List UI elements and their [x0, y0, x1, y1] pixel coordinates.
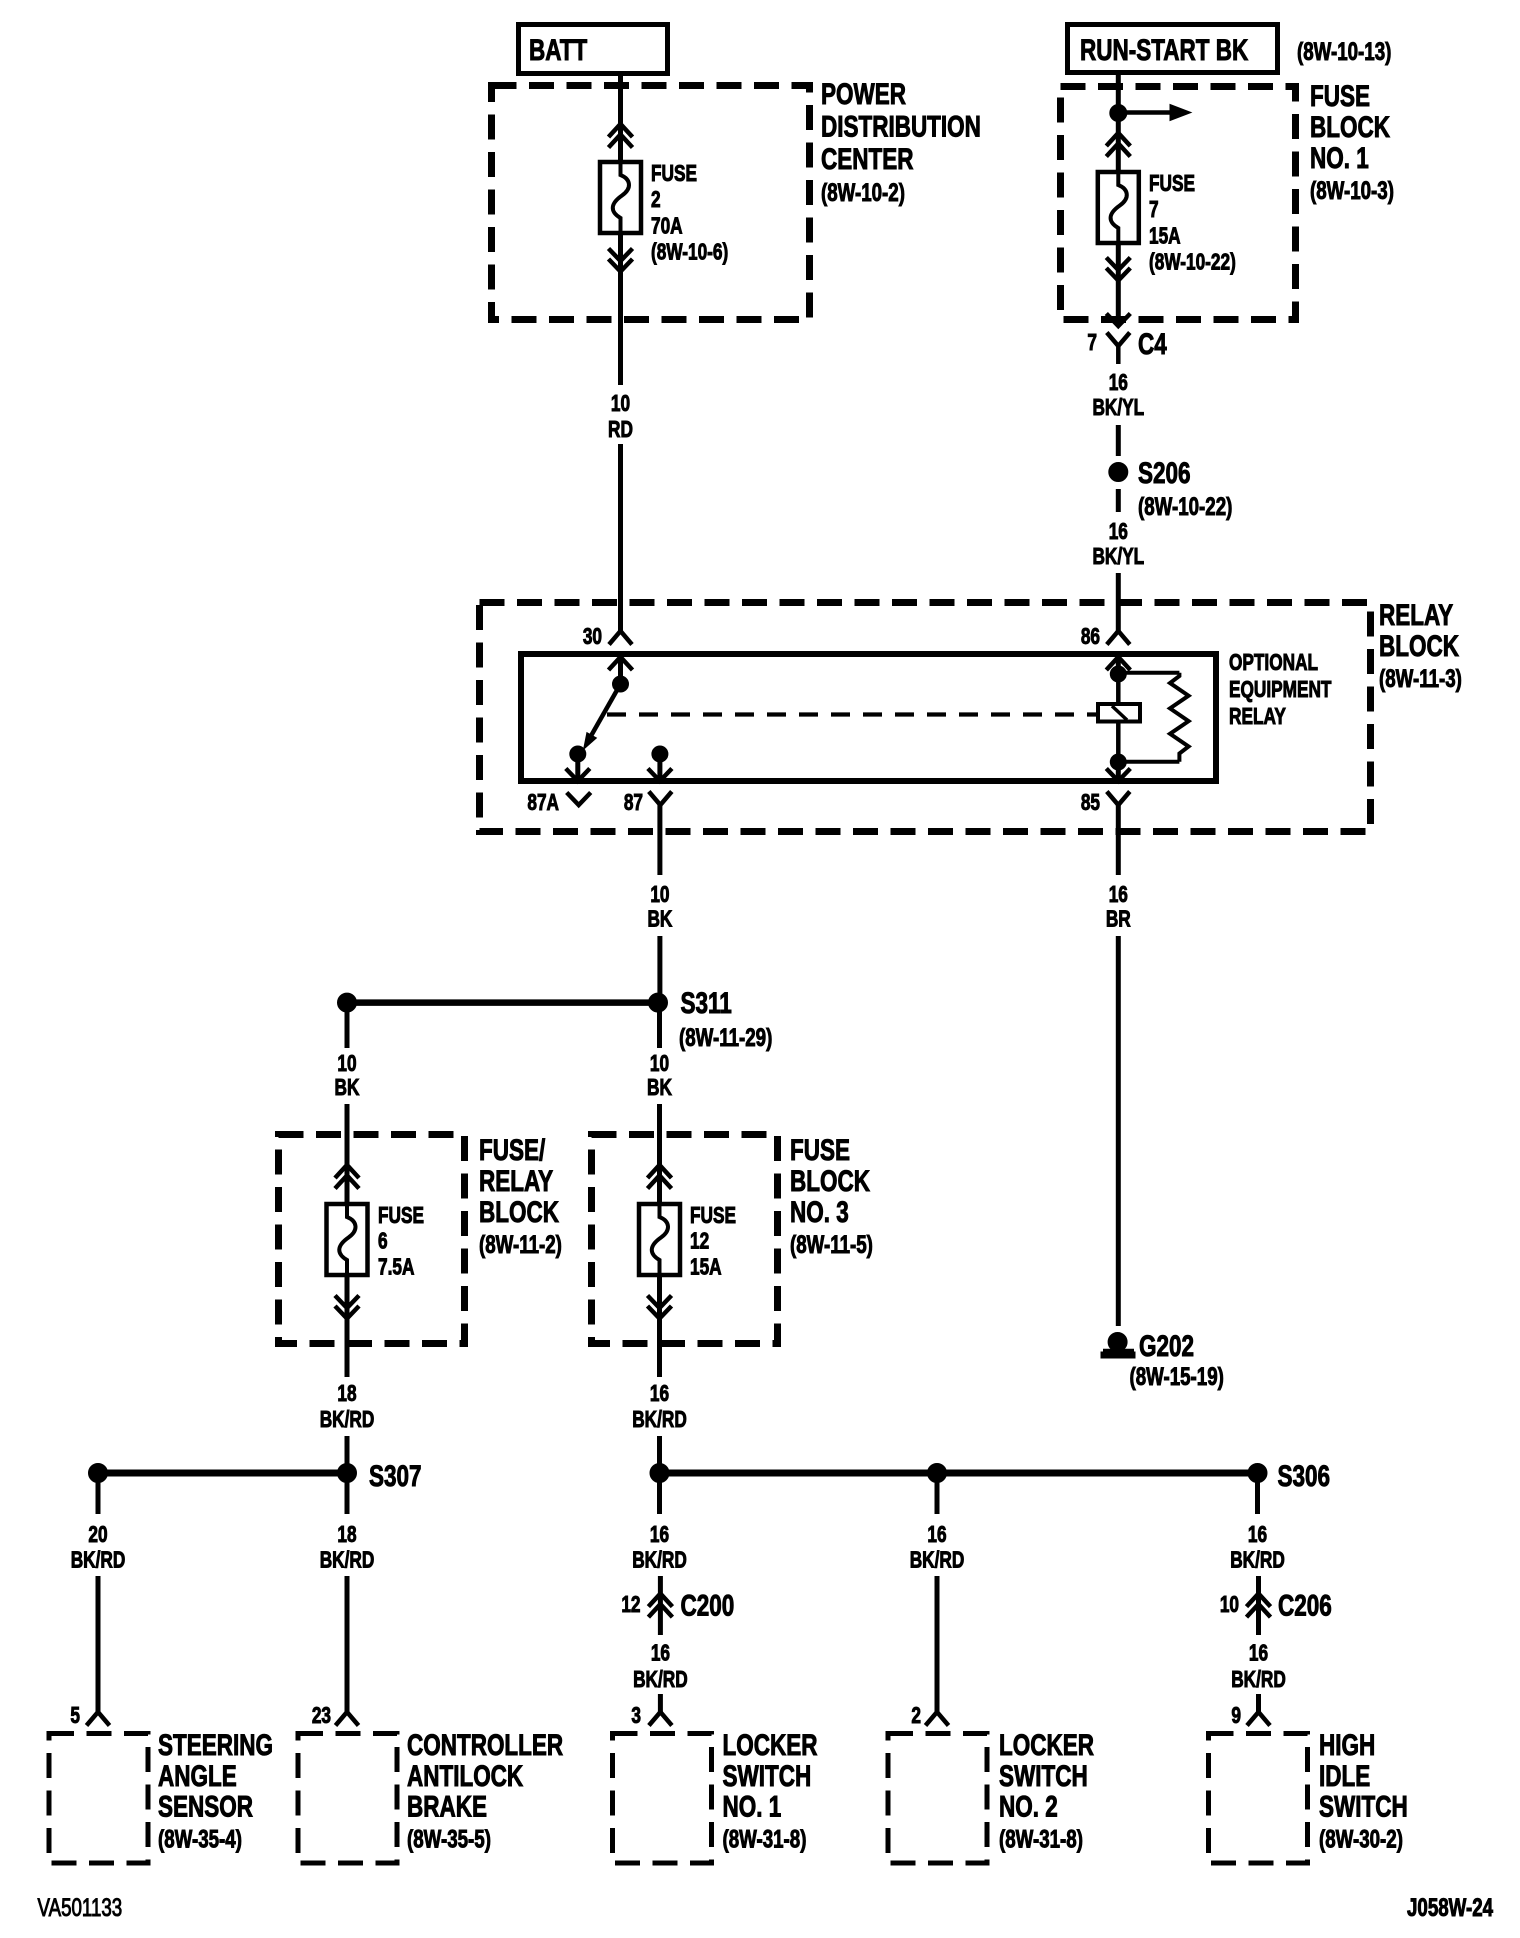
svg-text:20: 20: [88, 1523, 107, 1548]
wire 10 RD to relay pin 30: [618, 444, 623, 631]
wire label 16 BK/RD top middle: [632, 1382, 687, 1433]
wire label 18 BK/RD upper: [320, 1382, 375, 1433]
fuse/relay block (dashed): [279, 1135, 465, 1344]
run-start feed node RUN-START BK: [1068, 25, 1278, 73]
svg-text:16: 16: [651, 1641, 670, 1666]
svg-text:SENSOR: SENSOR: [158, 1789, 253, 1823]
svg-text:OPTIONAL: OPTIONAL: [1229, 651, 1318, 676]
svg-text:7: 7: [1087, 331, 1097, 356]
wire S311 left stub: [345, 1011, 350, 1048]
wire label 16 BK/RD his lower: [1231, 1641, 1286, 1692]
svg-text:FUSE: FUSE: [1310, 79, 1370, 113]
svg-text:23: 23: [312, 1704, 331, 1729]
sheet number VA501133: [38, 1893, 123, 1921]
connector C200 chevrons: [648, 1594, 672, 1618]
high idle switch label: [1319, 1728, 1408, 1853]
svg-text:BK/RD: BK/RD: [632, 1408, 687, 1433]
svg-text:BRAKE: BRAKE: [407, 1789, 487, 1823]
controller antilock brake (dashed box): [298, 1734, 397, 1864]
wire label 16 BR: [1106, 883, 1131, 932]
connector C206 chevrons: [1247, 1594, 1271, 1618]
svg-text:BK/RD: BK/RD: [71, 1548, 126, 1573]
connector C4: [1107, 327, 1167, 364]
fuse 12 label: [690, 1204, 736, 1280]
connector C200 label: [681, 1588, 735, 1622]
svg-text:87A: 87A: [527, 791, 559, 816]
svg-text:(8W-10-2): (8W-10-2): [821, 179, 905, 207]
svg-text:LOCKER: LOCKER: [723, 1728, 818, 1762]
S306 left dot: [650, 1464, 669, 1483]
wire to locker switch no.1: [658, 1694, 663, 1712]
splice S307 bus: [98, 1470, 347, 1477]
relay coil element: [1098, 674, 1140, 762]
svg-text:(8W-30-2): (8W-30-2): [1319, 1825, 1403, 1853]
svg-text:BK: BK: [335, 1076, 360, 1101]
pin 85 connector: [1107, 792, 1130, 806]
wire fuse 2 to PDC exit: [618, 233, 623, 385]
svg-text:(8W-15-19): (8W-15-19): [1130, 1362, 1224, 1390]
svg-text:S206: S206: [1138, 456, 1191, 490]
coil bottom dot: [1110, 754, 1126, 770]
svg-text:2: 2: [651, 188, 661, 213]
wire to ground G202: [1116, 936, 1121, 1326]
wire label 18 BK/RD lower: [320, 1523, 375, 1573]
S307 right dot: [338, 1464, 357, 1483]
relay coil dashed actuation line: [607, 712, 1098, 716]
wire to locker switch no.2: [935, 1576, 940, 1712]
svg-text:87: 87: [624, 791, 643, 816]
wire label 10 BK right: [647, 1052, 672, 1101]
svg-text:FUSE: FUSE: [690, 1204, 736, 1229]
pin 87 label: [624, 791, 643, 816]
svg-text:NO. 1: NO. 1: [723, 1789, 782, 1823]
coil suppression resistor: [1118, 673, 1188, 762]
fuse 7 label: [1149, 172, 1236, 275]
wire label 16 BK/RD ls1 lower: [633, 1641, 688, 1692]
svg-text:FUSE/: FUSE/: [479, 1133, 546, 1167]
svg-text:BK/RD: BK/RD: [320, 1408, 375, 1433]
svg-text:18: 18: [337, 1382, 356, 1407]
svg-text:ANGLE: ANGLE: [158, 1759, 237, 1793]
svg-text:FUSE: FUSE: [651, 162, 697, 187]
pin 87A internal chevron: [566, 754, 590, 781]
junction dot on run-start feed: [1110, 105, 1127, 122]
fuse block no.3 label: [790, 1133, 873, 1259]
pin 86 internal chevron: [1106, 657, 1130, 674]
relay block (dashed): [480, 603, 1371, 832]
svg-text:STEERING: STEERING: [158, 1728, 273, 1762]
pin 86 connector: [1107, 631, 1130, 645]
wire label 16 BK/RD ls2: [910, 1523, 965, 1573]
svg-text:BK/RD: BK/RD: [1230, 1548, 1285, 1573]
power distribution center block (dashed): [492, 86, 810, 320]
wire high idle stub: [1255, 1481, 1260, 1514]
fuse block no.3 (dashed): [592, 1135, 778, 1344]
svg-text:16: 16: [927, 1523, 946, 1548]
coil top dot: [1110, 666, 1126, 682]
splice S307 label: [369, 1459, 422, 1493]
svg-text:RELAY: RELAY: [479, 1164, 553, 1198]
pin 87 connector: [649, 792, 672, 806]
wire relay 85 to label: [1116, 805, 1121, 875]
svg-text:(8W-10-22): (8W-10-22): [1138, 492, 1232, 520]
svg-text:(8W-31-8): (8W-31-8): [723, 1825, 807, 1853]
svg-text:7.5A: 7.5A: [378, 1255, 415, 1280]
connector C206 label: [1278, 1588, 1332, 1622]
wire label 16 BK/RD his upper: [1230, 1523, 1285, 1573]
wire S307 left stub: [96, 1481, 101, 1514]
wire to S306 bus: [657, 1436, 662, 1473]
svg-text:BLOCK: BLOCK: [790, 1164, 870, 1198]
svg-text:(8W-35-4): (8W-35-4): [158, 1825, 242, 1853]
S306 middle dot: [928, 1464, 947, 1483]
svg-text:12: 12: [690, 1229, 709, 1254]
switch common dot: [613, 676, 629, 692]
splice S206: [1109, 456, 1233, 521]
splice S306 bus: [660, 1470, 1258, 1477]
svg-text:BK/RD: BK/RD: [1231, 1668, 1286, 1693]
locker switch no.2 connector: [926, 1712, 949, 1726]
svg-text:16: 16: [650, 1382, 669, 1407]
wire fuse 7 to block exit: [1116, 243, 1121, 326]
fuse F2 70A: [600, 162, 641, 233]
svg-text:NO. 3: NO. 3: [790, 1195, 849, 1229]
high idle switch (dashed box): [1209, 1734, 1308, 1864]
svg-text:S307: S307: [369, 1459, 422, 1493]
fuse 2 input chevrons: [609, 124, 633, 148]
connector C206 pin 10 label: [1220, 1593, 1239, 1618]
wire C4 to S206: [1116, 425, 1121, 456]
fuse F12 15A: [639, 1204, 680, 1275]
svg-text:BK/YL: BK/YL: [1092, 545, 1144, 570]
svg-text:(8W-35-5): (8W-35-5): [407, 1825, 491, 1853]
svg-text:2: 2: [911, 1704, 921, 1729]
pin 30 label: [583, 625, 602, 650]
contact dot 87A: [570, 746, 586, 762]
locker switch no.1 (dashed box): [613, 1734, 712, 1864]
svg-text:5: 5: [70, 1704, 80, 1729]
svg-text:IDLE: IDLE: [1319, 1759, 1370, 1793]
svg-text:6: 6: [378, 1229, 388, 1254]
svg-text:C4: C4: [1138, 327, 1167, 361]
fuse 6 label: [378, 1204, 424, 1280]
high idle switch connector: [1247, 1712, 1270, 1726]
svg-text:BK: BK: [647, 907, 672, 932]
optional equipment relay body: [521, 654, 1216, 781]
svg-text:HIGH: HIGH: [1319, 1728, 1375, 1762]
svg-text:16: 16: [1248, 1523, 1267, 1548]
svg-text:NO. 1: NO. 1: [1310, 141, 1369, 175]
wire S206 to relay pin 86: [1116, 573, 1121, 631]
wire fuse 12 exit: [657, 1275, 662, 1377]
steering angle sensor connector: [87, 1712, 110, 1726]
wire label 16 BK/YL upper: [1092, 371, 1144, 421]
fuse 7 input chevrons: [1106, 133, 1130, 157]
locker switch no.2 (dashed box): [888, 1734, 987, 1864]
svg-text:EQUIPMENT: EQUIPMENT: [1229, 678, 1332, 703]
steering angle sensor label: [158, 1728, 273, 1853]
svg-text:ANTILOCK: ANTILOCK: [407, 1759, 523, 1793]
wire fuse 6 exit: [345, 1275, 350, 1377]
svg-text:FUSE: FUSE: [378, 1204, 424, 1229]
svg-text:30: 30: [583, 625, 602, 650]
wire label 10 BK left: [335, 1052, 360, 1101]
wire label 20 BK/RD: [71, 1523, 126, 1573]
fuse 6 input chevrons: [335, 1165, 359, 1189]
svg-text:BK/RD: BK/RD: [632, 1548, 687, 1573]
svg-text:VA501133: VA501133: [38, 1893, 123, 1921]
svg-text:SWITCH: SWITCH: [723, 1759, 812, 1793]
pin 85 internal chevron: [1106, 762, 1130, 781]
fuse block no.1 (dashed): [1061, 87, 1296, 320]
svg-text:(8W-31-8): (8W-31-8): [999, 1825, 1083, 1853]
power distribution center label: [821, 77, 981, 207]
svg-text:BK/YL: BK/YL: [1092, 396, 1144, 421]
svg-text:10: 10: [650, 883, 669, 908]
svg-text:J058W-24: J058W-24: [1407, 1893, 1494, 1921]
high idle switch pin 9 label: [1231, 1704, 1241, 1729]
svg-text:C200: C200: [681, 1588, 735, 1622]
svg-text:NO. 2: NO. 2: [999, 1789, 1058, 1823]
wire to splice S311: [657, 936, 662, 1003]
wire to steering angle sensor: [96, 1576, 101, 1712]
pin 30 internal chevron: [609, 657, 633, 684]
svg-text:RUN-START BK: RUN-START BK: [1080, 33, 1248, 67]
svg-text:G202: G202: [1139, 1329, 1194, 1363]
svg-text:BK: BK: [647, 1076, 672, 1101]
svg-text:10: 10: [337, 1052, 356, 1077]
wire S307 lower stub: [345, 1481, 350, 1514]
svg-text:(8W-10-22): (8W-10-22): [1149, 250, 1236, 275]
steering angle sensor (dashed box): [49, 1734, 148, 1864]
wire to fuse/relay block: [345, 1104, 350, 1204]
svg-text:BK/RD: BK/RD: [320, 1548, 375, 1573]
svg-text:(8W-11-2): (8W-11-2): [479, 1230, 562, 1258]
svg-text:C206: C206: [1278, 1588, 1332, 1622]
wire S311 crossover: [347, 999, 658, 1006]
svg-text:RELAY: RELAY: [1229, 705, 1286, 730]
svg-text:16: 16: [1249, 1641, 1268, 1666]
wire to splice S307: [345, 1436, 350, 1473]
svg-text:10: 10: [650, 1052, 669, 1077]
wire label 10 BK upper: [647, 883, 672, 932]
svg-text:(8W-10-13): (8W-10-13): [1297, 37, 1391, 65]
svg-text:BR: BR: [1106, 907, 1131, 932]
svg-text:(8W-11-29): (8W-11-29): [679, 1023, 772, 1051]
wire S311 lower stub: [657, 1011, 662, 1048]
splice S311: [649, 986, 773, 1052]
svg-text:16: 16: [1109, 883, 1128, 908]
svg-text:3: 3: [631, 1704, 641, 1729]
steering angle sensor pin 5 label: [70, 1704, 80, 1729]
optional equipment relay label: [1229, 651, 1332, 730]
wire S206 lower stub: [1116, 489, 1121, 512]
svg-text:BK/RD: BK/RD: [633, 1668, 688, 1693]
svg-text:S311: S311: [681, 986, 732, 1020]
pin 30 connector: [609, 631, 632, 645]
svg-text:BLOCK: BLOCK: [1310, 110, 1390, 144]
svg-text:(8W-10-3): (8W-10-3): [1310, 176, 1394, 204]
pin 86 label: [1081, 625, 1100, 650]
svg-text:DISTRIBUTION: DISTRIBUTION: [821, 109, 981, 143]
wire label 10 RD: [608, 392, 633, 443]
wire to fuse block no.3: [657, 1104, 662, 1204]
fuse block no.1 label: [1310, 79, 1394, 205]
locker switch no.2 pin 2 label: [911, 1704, 921, 1729]
svg-text:15A: 15A: [690, 1255, 722, 1280]
wire to controller antilock brake: [345, 1576, 350, 1712]
svg-text:18: 18: [337, 1523, 356, 1548]
svg-text:(8W-10-6): (8W-10-6): [651, 240, 728, 265]
S311 left branch dot: [338, 993, 357, 1012]
S307 left dot: [89, 1464, 108, 1483]
svg-text:10: 10: [611, 392, 630, 417]
fuse 2 label: [651, 162, 728, 265]
pin 85 label: [1081, 791, 1100, 816]
contact dot 87: [652, 746, 668, 762]
fuse 6 output chevrons: [335, 1296, 359, 1319]
svg-text:SWITCH: SWITCH: [1319, 1789, 1408, 1823]
wire relay 87 to label: [657, 805, 662, 875]
svg-text:9: 9: [1231, 1704, 1241, 1729]
relay switch arm: [584, 684, 621, 749]
fuse F7 15A: [1098, 172, 1139, 243]
svg-text:CENTER: CENTER: [821, 142, 913, 176]
battery feed node BATT: [519, 25, 668, 74]
fuse 12 input chevrons: [648, 1165, 672, 1189]
controller antilock brake pin 23 label: [312, 1704, 331, 1729]
pin 87A connector chevron: [567, 793, 591, 806]
svg-text:7: 7: [1149, 198, 1159, 223]
ground G202: [1101, 1329, 1224, 1391]
pin 87 internal chevron: [648, 754, 672, 781]
wire to connector C206: [1256, 1576, 1261, 1635]
locker switch no.2 label: [999, 1728, 1094, 1853]
connector chevron at fuse block no.1 exit: [1106, 314, 1130, 327]
svg-text:BLOCK: BLOCK: [479, 1195, 559, 1229]
locker switch no.1 pin 3 label: [631, 1704, 641, 1729]
wire RUN-START to fuse 7: [1116, 73, 1121, 172]
svg-text:CONTROLLER: CONTROLLER: [407, 1728, 563, 1762]
wire locker no.1 stub: [657, 1481, 662, 1514]
svg-text:FUSE: FUSE: [1149, 172, 1195, 197]
fuse 12 output chevrons: [648, 1296, 672, 1319]
svg-text:BK/RD: BK/RD: [910, 1548, 965, 1573]
svg-text:16: 16: [650, 1523, 669, 1548]
svg-text:85: 85: [1081, 791, 1100, 816]
svg-text:POWER: POWER: [821, 77, 906, 111]
svg-text:16: 16: [1109, 371, 1128, 396]
relay block label: [1379, 598, 1462, 693]
wire to high idle switch: [1256, 1694, 1261, 1712]
svg-text:S306: S306: [1278, 1459, 1331, 1493]
svg-text:LOCKER: LOCKER: [999, 1728, 1094, 1762]
connector C200 pin 12 label: [621, 1593, 640, 1618]
wire label 16 BK/RD ls1 upper: [632, 1523, 687, 1573]
drawing number J058W-24: [1407, 1893, 1494, 1921]
svg-text:70A: 70A: [651, 214, 683, 239]
wire BATT to fuse 2: [618, 74, 623, 162]
svg-text:BATT: BATT: [529, 33, 587, 67]
run-start reference: [1297, 37, 1391, 65]
svg-text:12: 12: [621, 1593, 640, 1618]
svg-text:(8W-11-3): (8W-11-3): [1379, 664, 1462, 692]
locker switch no.1 connector: [649, 1712, 672, 1726]
locker switch no.1 label: [723, 1728, 818, 1853]
wire locker no.2 stub: [935, 1481, 940, 1514]
pin 7 label: [1087, 331, 1097, 356]
svg-text:16: 16: [1109, 520, 1128, 545]
pin 87A label: [527, 791, 559, 816]
splice S306: [1248, 1459, 1330, 1493]
controller antilock brake label: [407, 1728, 563, 1853]
svg-text:(8W-11-5): (8W-11-5): [790, 1230, 873, 1258]
svg-text:SWITCH: SWITCH: [999, 1759, 1088, 1793]
svg-text:86: 86: [1081, 625, 1100, 650]
fuse F6 7.5A: [327, 1204, 368, 1275]
svg-text:RD: RD: [608, 418, 633, 443]
controller antilock brake connector: [336, 1712, 359, 1726]
svg-text:RELAY: RELAY: [1379, 598, 1453, 632]
fuse 7 output chevrons: [1106, 258, 1130, 281]
svg-text:15A: 15A: [1149, 224, 1181, 249]
wire to connector C200: [658, 1576, 663, 1635]
svg-text:BLOCK: BLOCK: [1379, 629, 1459, 663]
arrow tap to other circuits: [1118, 105, 1191, 121]
svg-text:10: 10: [1220, 1593, 1239, 1618]
wire label 16 BK/YL lower: [1092, 520, 1144, 570]
fuse/relay block label: [479, 1133, 562, 1259]
fuse 2 output chevrons: [609, 249, 633, 272]
svg-text:FUSE: FUSE: [790, 1133, 850, 1167]
